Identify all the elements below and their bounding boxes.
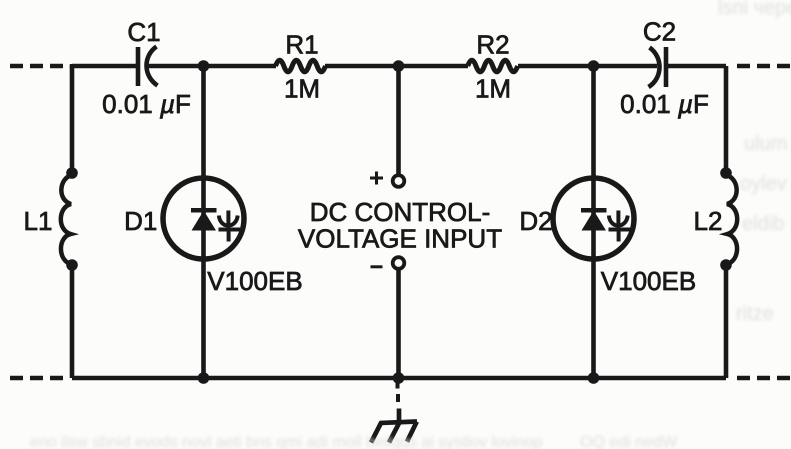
node B junction dot top (DC input): [393, 60, 405, 72]
svg-text:V100EB: V100EB: [601, 266, 696, 296]
svg-text:lsni череа: lsni череа: [718, 0, 791, 19]
capacitor C1: [138, 47, 158, 87]
wire DC input upper lead: [396, 66, 401, 174]
svg-text:eno ilsw sbnid evods novl aeti: eno ilsw sbnid evods novl aeti bns qmi a…: [30, 434, 542, 449]
varactor diode D2: [553, 178, 634, 259]
resistor R1: [276, 60, 326, 72]
svg-text:1M: 1M: [475, 74, 511, 104]
wire right vertical upper: [724, 66, 729, 173]
D2 envelope circle: [553, 178, 634, 259]
wire DC input lower lead: [396, 271, 401, 379]
svg-text:ritze: ritze: [736, 303, 774, 325]
node A junction dot top (D1 branch): [198, 60, 210, 72]
junction dot L2 top: [720, 167, 732, 179]
svg-text:VOLTAGE INPUT: VOLTAGE INPUT: [298, 224, 502, 254]
svg-text:D1: D1: [124, 206, 157, 236]
wire top-left dashed stub: [10, 64, 67, 69]
D1 cathode bar: [191, 208, 217, 213]
inductor L1: [61, 175, 72, 265]
svg-text:1M: 1M: [284, 74, 320, 104]
wire left vertical lower: [70, 265, 75, 378]
svg-text:R2: R2: [476, 30, 509, 60]
junction dot bottom (D1 branch): [198, 372, 210, 384]
svg-text:DC CONTROL-: DC CONTROL-: [310, 197, 491, 227]
capacitor C2: [649, 47, 667, 87]
terminal + (DC control voltage input): [393, 175, 405, 187]
D1 envelope circle: [163, 178, 244, 259]
svg-text:eldib: eldib: [742, 213, 784, 235]
wire D1 branch vertical: [201, 66, 206, 378]
D1 varicap capacitor mark: [226, 211, 230, 227]
D2 varicap capacitor mark: [616, 211, 620, 227]
wire R2 to C2: [518, 64, 657, 69]
minus sign: [371, 265, 383, 268]
svg-text:L1: L1: [24, 206, 53, 236]
wire top-right dashed stub: [737, 64, 791, 69]
svg-text:0.01 µF: 0.01 µF: [102, 89, 191, 119]
wire right vertical lower: [724, 265, 729, 378]
wire bottom horizontal: [72, 376, 726, 381]
junction dot bottom (ground node): [393, 372, 405, 384]
varactor diode D1: [163, 178, 244, 259]
svg-text:R1: R1: [285, 30, 318, 60]
wire top horizontal left segment (corner to C1): [72, 64, 136, 66]
wire left vertical upper: [70, 66, 75, 173]
ground: [371, 383, 417, 443]
wire C1 to node A: [148, 64, 276, 69]
wire node A to R1: [325, 64, 468, 69]
plus sign: [370, 172, 383, 185]
junction dot L2 bottom: [720, 259, 732, 271]
svg-text:C2: C2: [643, 17, 676, 47]
svg-text:C1: C1: [127, 17, 160, 47]
inductor L2: [726, 175, 737, 265]
svg-text:V100EB: V100EB: [207, 266, 302, 296]
wire bottom-left dashed stub: [10, 376, 65, 381]
svg-text:ulum: ulum: [744, 133, 787, 155]
wire C2 to top-right corner: [666, 64, 726, 69]
svg-text:OQ edi nedW: OQ edi nedW: [580, 434, 678, 449]
D1 anode triangle: [192, 211, 217, 231]
junction dot bottom (D2 branch): [588, 372, 600, 384]
svg-text:oylev: oylev: [740, 173, 787, 195]
terminal - (DC control voltage input): [393, 257, 405, 269]
svg-text:L2: L2: [694, 206, 723, 236]
wire D2 branch vertical: [591, 66, 596, 378]
node C junction dot top (D2 branch): [588, 60, 600, 72]
svg-text:D2: D2: [519, 206, 552, 236]
junction dot L1 bottom: [66, 259, 78, 271]
svg-text:0.01 µF: 0.01 µF: [620, 89, 709, 119]
D2 cathode bar: [581, 208, 607, 213]
resistor R2: [468, 60, 518, 72]
D2 anode triangle: [582, 211, 607, 231]
junction dot L1 top: [66, 167, 78, 179]
wire bottom-right dashed stub: [737, 376, 791, 381]
